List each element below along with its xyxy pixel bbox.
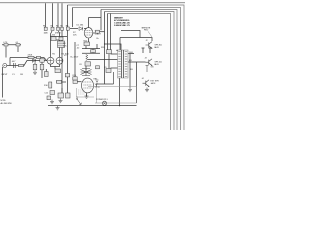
svg-text:R20: R20 (101, 47, 104, 49)
resistor input row (19, 64, 24, 66)
box A chassis outline (77, 87, 137, 104)
svg-text:JACK: JACK (154, 63, 160, 66)
ground on bottom wire (56, 106, 60, 110)
wire box to tube (77, 81, 81, 83)
wire mid row (10, 58, 47, 66)
labels component row (43, 25, 69, 34)
wire diode row (70, 28, 87, 30)
junction dot bottom wire (119, 105, 120, 106)
wire bus drop 5 (108, 14, 111, 69)
tube V1 (84, 28, 93, 38)
wire transformer return L (97, 72, 114, 87)
wire bus drop 4 (105, 12, 122, 85)
switch arrow on bottom wire (76, 97, 81, 105)
resistor mid row 2 (37, 56, 41, 58)
box on wire y82 (57, 80, 62, 83)
component near top mid (96, 30, 100, 33)
box lower left 3 (58, 93, 64, 98)
wire band y36.5 (50, 36, 67, 38)
box mid column 1 (84, 42, 90, 46)
svg-text:EXT SPK: EXT SPK (151, 81, 160, 83)
wire output tube bottom (86, 93, 88, 97)
box left of tube V3 (73, 80, 77, 83)
svg-text:B+ 420V: B+ 420V (71, 57, 79, 59)
svg-text:4.7K: 4.7K (3, 42, 8, 44)
table box column C (58, 41, 65, 48)
pilot lamp PL1 (102, 101, 106, 105)
wire vertical drop A (45, 3, 47, 27)
tube circle A (47, 57, 54, 64)
leader line note (148, 31, 152, 38)
wire bus drop 3 (100, 10, 102, 31)
wire left shield vertical (2, 67, 4, 98)
svg-text:SPK 4Ω: SPK 4Ω (155, 62, 163, 64)
ground lower left 1 (50, 100, 54, 104)
resistor lower left 1 (49, 82, 52, 88)
phase splitter fan (81, 69, 92, 76)
ground under tube V3 (85, 94, 89, 98)
coil zigzag (86, 55, 88, 61)
wire bus drop 1 (67, 5, 69, 73)
resistor under tubes (55, 69, 61, 73)
box mid column 2 (91, 50, 96, 53)
resistor mid row (28, 56, 34, 58)
svg-text:D1 1N4: D1 1N4 (77, 25, 85, 27)
input jack J1 (3, 64, 7, 68)
ground lower left 2 (59, 99, 63, 103)
wire bottom right vertical (136, 62, 138, 103)
svg-text:470K: 470K (28, 55, 33, 57)
box input row upper (40, 59, 44, 62)
top border line (0, 2, 185, 3)
wire transformer outputs (128, 54, 146, 63)
dashed detail in box A (78, 90, 85, 94)
wire left top row (2, 44, 21, 46)
ground x130 tap (128, 88, 132, 92)
wire vertical drop D long (61, 3, 63, 93)
component mid column low (107, 50, 112, 54)
resistor vertical 2 (40, 64, 44, 70)
wire bus drop 2 (72, 8, 74, 28)
svg-text:2. 240V AC LINE - 1.7V: 2. 240V AC LINE - 1.7V (114, 24, 131, 27)
box lower left 5 (47, 96, 51, 100)
tube circle B (56, 57, 63, 64)
wire x67 column (67, 73, 69, 93)
wire x75 mid vertical (74, 42, 76, 66)
wire phase splitter drop (85, 65, 87, 71)
svg-text:16Ω: 16Ω (129, 52, 133, 54)
wire bottom long (48, 105, 137, 107)
svg-text:NOTE:: NOTE: (1, 100, 7, 102)
wire dual-circle joins (51, 64, 60, 69)
wire lower center links (56, 66, 75, 93)
wire top bus 1 (68, 5, 185, 130)
box lower left 2 (50, 91, 55, 95)
wire transformer bottom drop (119, 78, 121, 106)
wire transformer left feeds (88, 54, 118, 68)
jack J4 (143, 80, 150, 87)
junction dot near transformer (116, 50, 117, 51)
wire jack1 feed (120, 31, 152, 51)
wire midcolumn rows (82, 44, 100, 53)
svg-text:JACK: JACK (154, 46, 160, 49)
resistor vertical 1 (33, 64, 37, 70)
output tube V3 (82, 78, 94, 93)
resistor vertical 3 (45, 72, 49, 77)
wire ground tap vertical (129, 54, 131, 88)
wire V1 box feed (100, 31, 105, 33)
jack J2 (146, 42, 153, 49)
box x67 column (65, 74, 69, 77)
wire tube V1 pins (89, 18, 102, 43)
ground under jack J4 (145, 88, 149, 92)
svg-text:+350: +350 (51, 35, 55, 37)
wire vertical drop B (51, 3, 53, 57)
component left-top R (4, 44, 8, 46)
wire top bus 2 (73, 8, 181, 131)
svg-text:SPK 8Ω: SPK 8Ω (155, 44, 163, 46)
svg-text:INPUT: INPUT (2, 74, 9, 76)
svg-text:JACK: JACK (151, 82, 157, 85)
component left-top C (16, 44, 20, 46)
wire top bus 5 (108, 14, 171, 131)
small box on B+ wire (96, 66, 100, 69)
box x75 column (73, 77, 77, 80)
box lower left 4 (66, 93, 71, 98)
wire vertical drop C (58, 3, 60, 57)
chassis stub right low (146, 66, 149, 73)
junction dot x104.5 (104, 43, 105, 44)
wire input row (7, 61, 47, 79)
wire chassis stubs under jack1 (142, 48, 152, 53)
transformer T2 (118, 50, 129, 78)
svg-text:ALL RES 1/2W: ALL RES 1/2W (1, 102, 12, 105)
wire stubs left components (6, 47, 18, 58)
diode D1 (79, 27, 83, 31)
capacitor near transformer (106, 69, 111, 73)
svg-text:POWER PL1: POWER PL1 (96, 99, 109, 101)
wire top bus 3 (101, 10, 177, 131)
capacitor C8 (85, 62, 91, 66)
wire tie between drops (51, 39, 60, 41)
note text block (114, 17, 131, 27)
box column B upper (51, 37, 56, 41)
box A divider (96, 87, 98, 103)
box column C upper (59, 37, 63, 40)
ground input row (33, 70, 37, 74)
jack J3 (146, 59, 153, 66)
capacitor C1 (14, 63, 16, 68)
svg-text:1M: 1M (20, 74, 23, 76)
component smudge row y27-31 A (44, 27, 69, 30)
svg-text:47K 1K: 47K 1K (55, 33, 61, 35)
diode input row (32, 59, 35, 63)
wire top bus 4 (105, 12, 175, 131)
